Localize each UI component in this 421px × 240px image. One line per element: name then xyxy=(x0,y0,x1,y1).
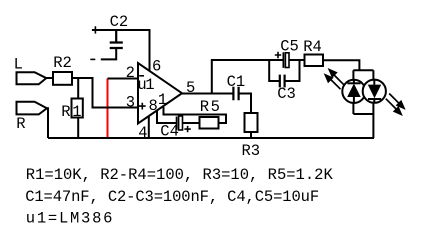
LED D1 wire through xyxy=(353,80,355,103)
node -V supply: minus sign xyxy=(90,58,95,60)
svg-text:4: 4 xyxy=(138,124,147,142)
wire: LED loop top and branches xyxy=(353,70,373,138)
wire: pin 4 to ground xyxy=(148,117,150,139)
op-amp inverting minus sign xyxy=(139,75,144,77)
svg-text:1: 1 xyxy=(158,91,167,109)
svg-text:R2: R2 xyxy=(53,54,72,72)
resistor R3 xyxy=(245,113,258,132)
wire: pin 2 to red wire xyxy=(108,78,138,80)
svg-text:8: 8 xyxy=(149,97,158,115)
svg-text:C4: C4 xyxy=(160,123,179,141)
wire: R3 to ground xyxy=(250,132,252,138)
svg-text:C2: C2 xyxy=(110,13,129,31)
wire: R5 to pin 1 bridge xyxy=(164,107,227,123)
LED D2 triangle xyxy=(368,85,381,99)
capacitor C2 xyxy=(110,30,123,48)
LED D2 cathode bar xyxy=(368,98,381,100)
wire: C2 bottom stub xyxy=(101,48,116,59)
node C5 plus sign xyxy=(275,52,281,58)
svg-text:R1: R1 xyxy=(61,103,83,121)
LED D2 wire through xyxy=(373,80,375,103)
svg-text:R1=10K, R2-R4=100, R3=10, R5=1: R1=10K, R2-R4=100, R3=10, R5=1.2K xyxy=(26,166,334,184)
LED D1 triangle xyxy=(347,84,361,98)
wire: pin 8 drop xyxy=(157,111,176,123)
resistor R2 xyxy=(53,72,72,85)
LED D2 emission arrows xyxy=(389,94,399,104)
svg-text:C1=47nF, C2-C3=100nF, C4,C5=10: C1=47nF, C2-C3=100nF, C4,C5=10uF xyxy=(25,188,319,206)
wire: output riser to top line xyxy=(212,60,283,94)
capacitor C4 xyxy=(176,117,178,130)
resistor R1 xyxy=(77,78,79,99)
wire: C5 to R4 xyxy=(289,59,305,61)
node +V supply: plus sign xyxy=(94,26,96,33)
capacitor C1 xyxy=(233,87,238,100)
svg-text:C5: C5 xyxy=(280,37,299,55)
LED D1 circle xyxy=(342,80,365,103)
op-amp non-inverting plus sign xyxy=(139,103,146,110)
wire: ground rail xyxy=(48,137,374,139)
svg-text:3: 3 xyxy=(126,94,135,112)
wire: C4 to R5 xyxy=(183,122,200,124)
capacitor C3 xyxy=(280,75,285,88)
wire: R to ground rail xyxy=(47,108,48,138)
svg-text:R3: R3 xyxy=(242,142,261,160)
wire: R4 to LED pair xyxy=(323,60,359,70)
svg-text:5: 5 xyxy=(186,79,195,97)
op-amp u1 LM386 xyxy=(138,63,182,124)
wire: L to R2 xyxy=(46,77,53,79)
svg-text:C1: C1 xyxy=(227,73,246,91)
svg-text:C3: C3 xyxy=(277,85,296,103)
svg-text:6: 6 xyxy=(152,58,161,76)
svg-text:R5: R5 xyxy=(200,98,222,116)
wire: top supply rail to pin 6 xyxy=(92,30,150,71)
wire: output pin 5 to C1 xyxy=(182,93,233,95)
svg-text:u1=LM386: u1=LM386 xyxy=(26,210,114,228)
node C4 plus sign xyxy=(184,126,190,132)
svg-text:R: R xyxy=(16,115,25,133)
resistor R5 xyxy=(200,117,219,129)
wire: C3 parallel loop xyxy=(269,60,299,81)
svg-text:L: L xyxy=(14,56,23,74)
connector L xyxy=(17,72,47,84)
LED D1 cathode bar xyxy=(347,82,360,84)
wire: red highlighted ground wire from pin2 node xyxy=(107,79,109,139)
LED D1 emission arrows xyxy=(325,70,404,115)
svg-text:2: 2 xyxy=(126,64,135,82)
svg-text:u1: u1 xyxy=(137,76,154,94)
wire: R2 to node A and down to pin 3 xyxy=(72,78,138,108)
svg-text:R4: R4 xyxy=(303,38,322,56)
resistor R4 xyxy=(305,55,324,67)
LED D2 circle xyxy=(363,80,386,103)
wire: C1 to R3 xyxy=(240,94,252,114)
capacitor C5 xyxy=(282,52,284,68)
connector R xyxy=(17,102,47,115)
